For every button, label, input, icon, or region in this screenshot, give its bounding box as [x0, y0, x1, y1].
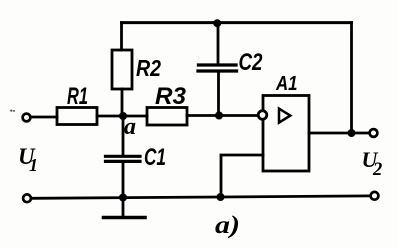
- wire feedback vertical right: [350, 23, 353, 133]
- wire R1 to R3 through node a: [97, 115, 147, 118]
- capacitor C2: [198, 65, 237, 71]
- speck noise dots: [10, 110, 12, 112]
- wire input to R1: [32, 116, 58, 119]
- svg-text:R1: R1: [67, 83, 88, 110]
- wire R2 bottom lead to node a: [121, 89, 124, 116]
- svg-text:а: а: [124, 114, 136, 140]
- wire bottom common rail: [32, 196, 370, 198]
- svg-text:2: 2: [372, 160, 382, 180]
- wire C1 bottom lead: [122, 163, 125, 198]
- node junction top (C2 tap): [213, 19, 221, 27]
- svg-text:R2: R2: [136, 55, 161, 81]
- wire non-inverting input: [221, 155, 263, 197]
- op-amp gain triangle: [279, 109, 290, 123]
- svg-text:C2: C2: [239, 49, 264, 76]
- terminal common right bottom: [371, 192, 379, 200]
- wire C1 top lead: [122, 116, 125, 155]
- node a junction: [119, 112, 127, 120]
- wire ground stub: [122, 198, 125, 217]
- svg-text:1: 1: [29, 155, 38, 175]
- resistor R3: [147, 108, 187, 126]
- svg-text:R3: R3: [155, 83, 187, 110]
- resistor R2: [112, 50, 132, 89]
- svg-text:A1: A1: [275, 73, 297, 95]
- terminal input left: [23, 114, 31, 122]
- node junction output/feedback: [348, 129, 356, 137]
- terminal common left bottom: [23, 194, 31, 202]
- wire C2 bottom lead: [217, 73, 220, 116]
- node junction C2 bottom tap: [215, 112, 223, 120]
- resistor R1: [57, 108, 97, 125]
- terminal output right top: [370, 129, 378, 137]
- ground bar: [104, 216, 146, 220]
- wire C2 top lead: [217, 23, 220, 64]
- svg-text:C1: C1: [144, 144, 166, 171]
- op-amp A1 body: [263, 96, 309, 172]
- capacitor C1: [106, 156, 141, 161]
- node junction non-inverting to common: [217, 193, 225, 201]
- wire R2 top lead: [120, 23, 123, 50]
- svg-text:а): а): [215, 212, 240, 239]
- wire R3 to op-amp inverting input: [187, 114, 258, 117]
- op-amp inverting input bubble: [258, 111, 267, 120]
- wire top feedback horizontal: [122, 21, 352, 24]
- node junction ground tap: [119, 194, 127, 202]
- wire op-amp output: [309, 132, 369, 135]
